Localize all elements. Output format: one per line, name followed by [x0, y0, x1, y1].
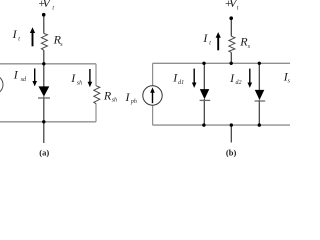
svg-text:R: R [103, 89, 112, 103]
svg-text:ph: ph [130, 99, 137, 105]
svg-text:d2: d2 [236, 80, 242, 86]
svg-text:I: I [229, 71, 235, 85]
svg-text:d1: d1 [178, 80, 184, 86]
svg-text:t: t [237, 6, 239, 12]
svg-text:sh: sh [77, 81, 82, 87]
svg-text:(a): (a) [39, 147, 49, 157]
svg-text:I: I [70, 71, 76, 85]
svg-text:V: V [43, 0, 52, 10]
svg-text:(b): (b) [226, 148, 237, 158]
svg-text:sd: sd [21, 77, 27, 83]
svg-text:s: s [60, 42, 63, 48]
svg-text:t: t [209, 41, 211, 47]
svg-text:I: I [125, 90, 131, 104]
svg-text:t: t [52, 5, 54, 11]
svg-text:sh: sh [112, 98, 117, 104]
svg-text:I: I [202, 31, 208, 45]
svg-text:s: s [248, 44, 251, 50]
svg-text:I: I [13, 68, 19, 82]
svg-text:t: t [18, 37, 20, 43]
svg-text:sh: sh [288, 79, 290, 85]
svg-text:I: I [12, 27, 18, 41]
